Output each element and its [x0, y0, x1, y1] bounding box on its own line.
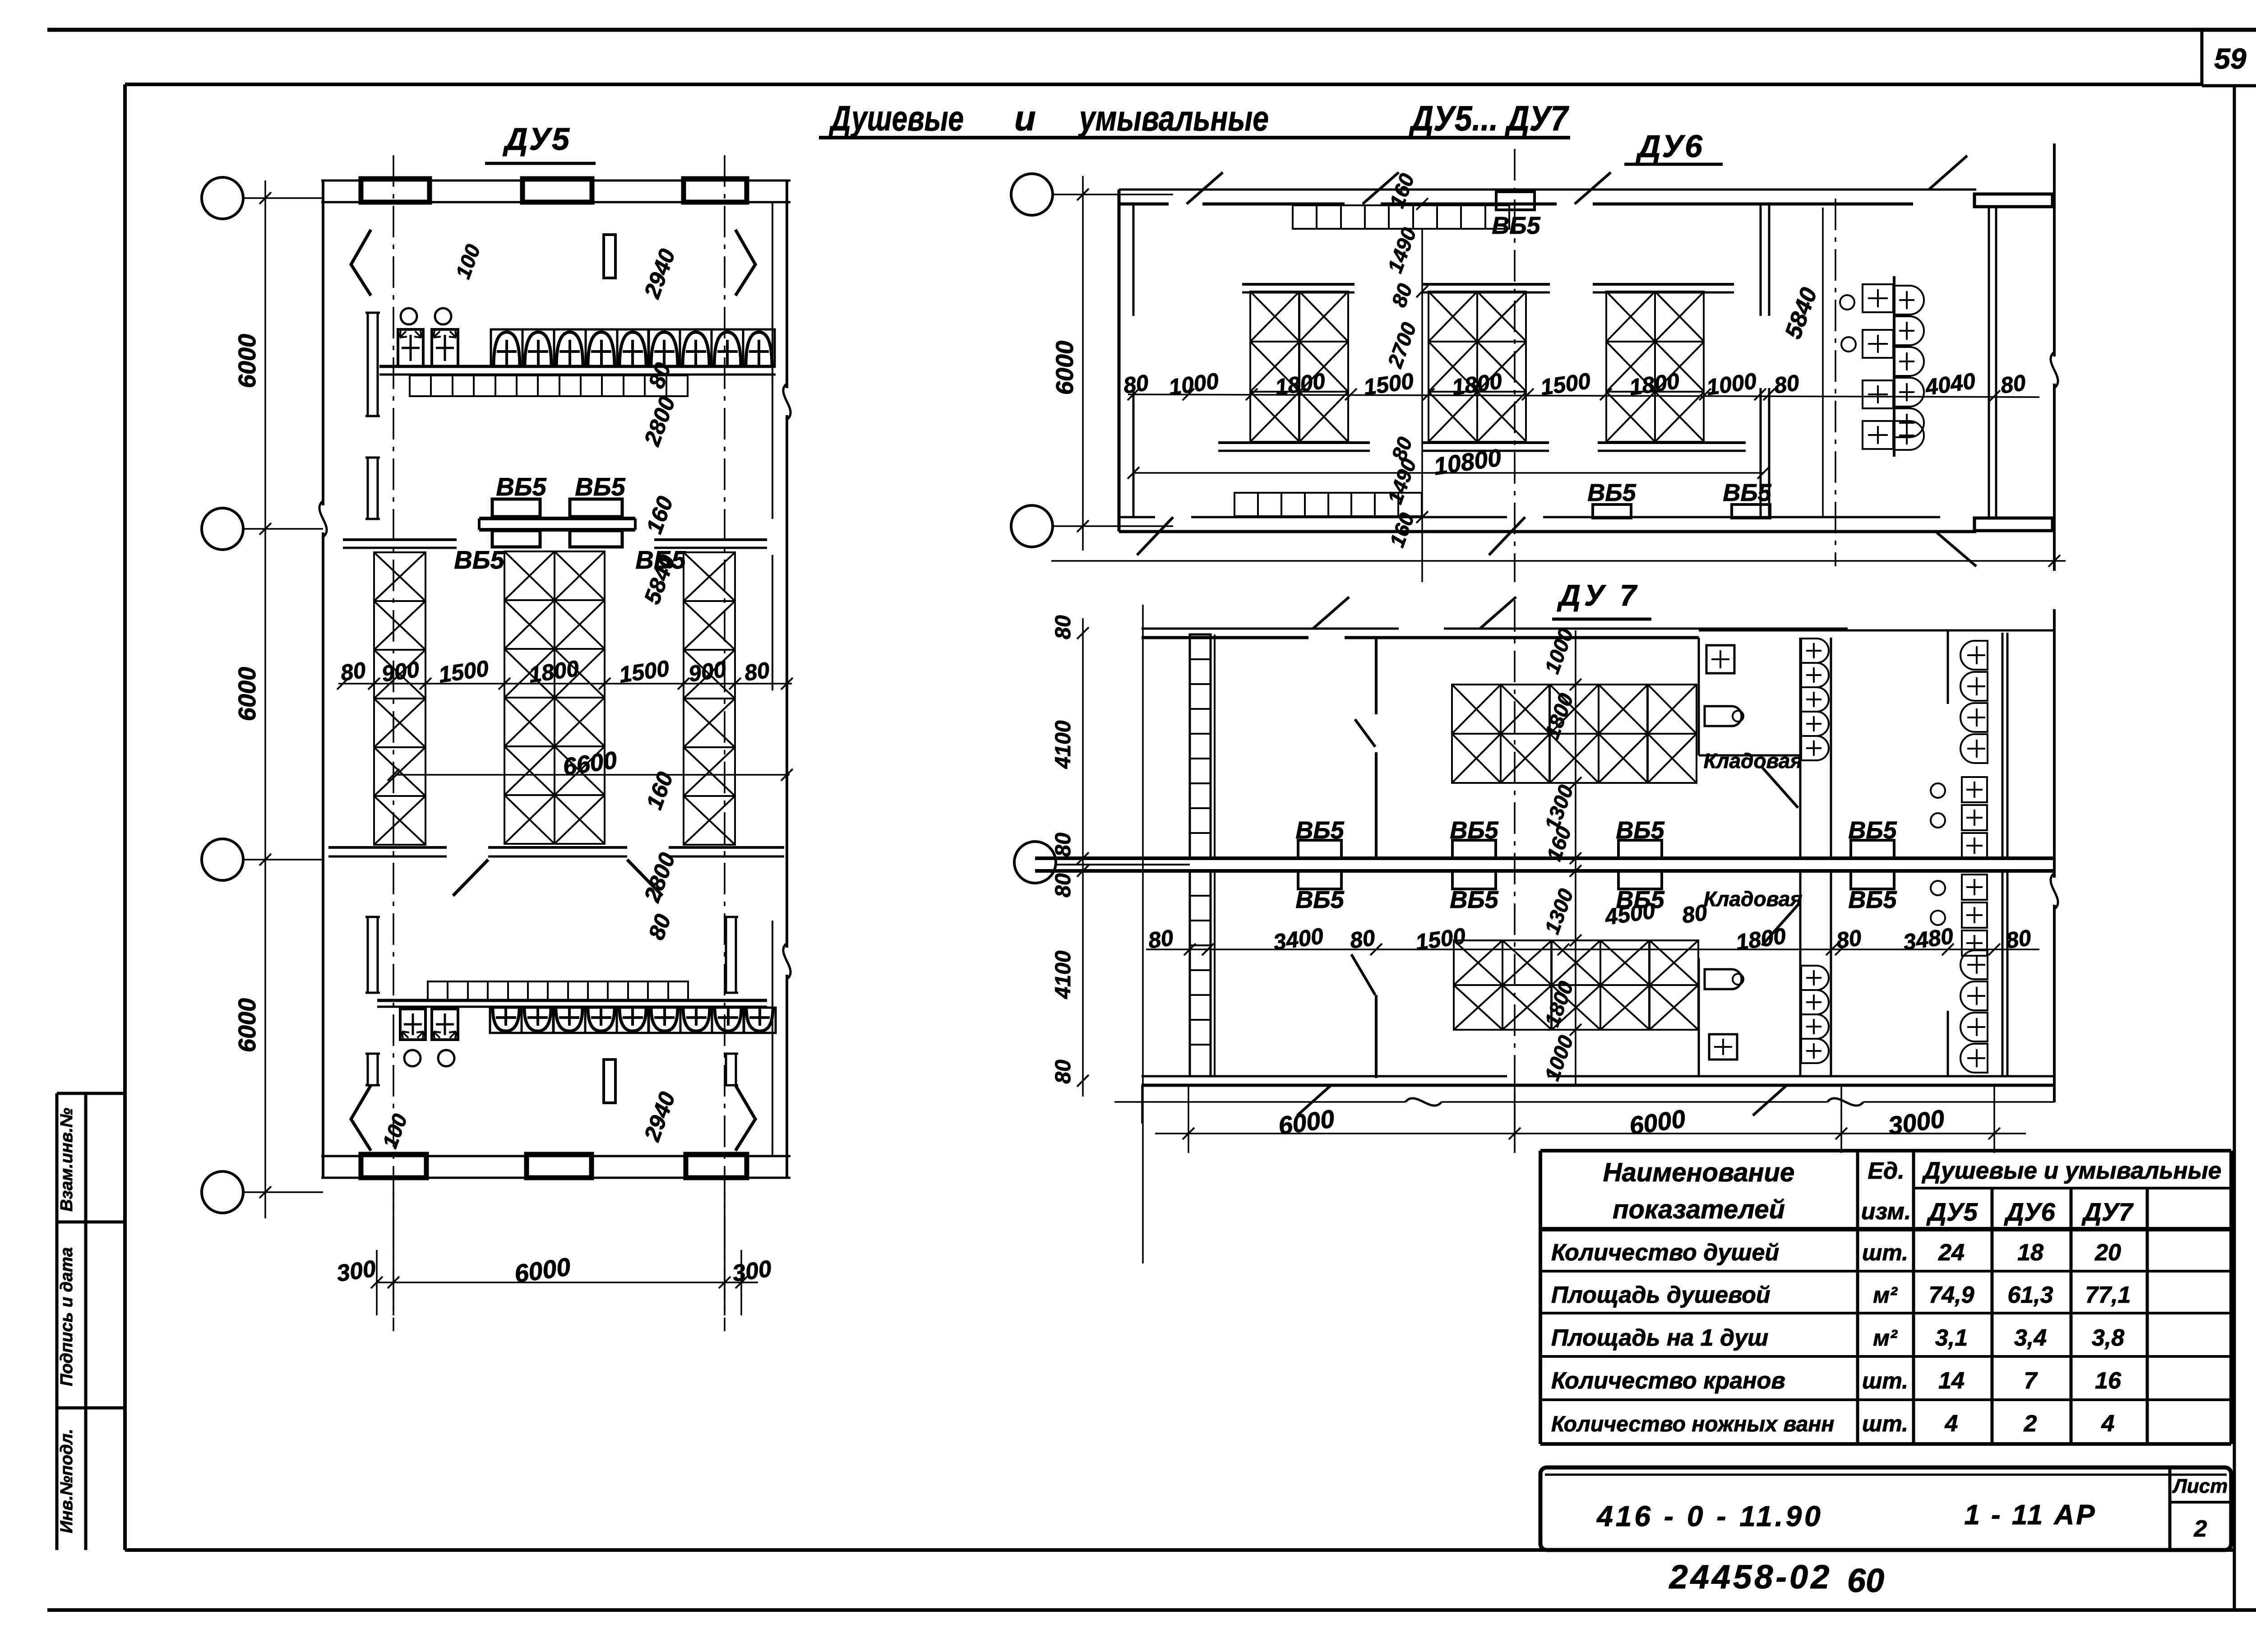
- svg-text:Количество ножных ванн: Количество ножных ванн: [1551, 1412, 1834, 1436]
- svg-text:ВБ5: ВБ5: [496, 472, 546, 501]
- svg-text:шт.: шт.: [1862, 1368, 1908, 1393]
- svg-text:80: 80: [1348, 925, 1377, 953]
- svg-text:416 - 0 - 11.90: 416 - 0 - 11.90: [1596, 1500, 1823, 1532]
- svg-text:Кладовая: Кладовая: [1704, 749, 1803, 773]
- svg-text:6000: 6000: [1276, 1104, 1336, 1140]
- svg-text:ДУ5... ДУ7: ДУ5... ДУ7: [1409, 98, 1570, 138]
- svg-text:показателей: показателей: [1613, 1195, 1785, 1224]
- svg-text:80: 80: [1051, 1060, 1075, 1084]
- svg-text:ВБ5: ВБ5: [575, 472, 625, 501]
- svg-text:4: 4: [1945, 1411, 1958, 1437]
- svg-text:80: 80: [1051, 873, 1075, 898]
- svg-text:80: 80: [1680, 900, 1709, 928]
- svg-text:80: 80: [339, 657, 367, 686]
- svg-text:3,4: 3,4: [2014, 1325, 2047, 1351]
- svg-text:6000: 6000: [234, 998, 261, 1052]
- svg-text:80: 80: [1772, 370, 1801, 398]
- svg-text:80: 80: [1387, 280, 1417, 310]
- svg-text:74,9: 74,9: [1928, 1282, 1974, 1308]
- svg-text:умывальные: умывальные: [1078, 98, 1269, 138]
- svg-text:1500: 1500: [1414, 923, 1467, 955]
- svg-text:4100: 4100: [1051, 950, 1075, 999]
- svg-text:2800: 2800: [639, 393, 680, 449]
- svg-text:Ед.: Ед.: [1868, 1158, 1904, 1184]
- svg-text:80: 80: [1835, 925, 1863, 953]
- svg-text:80: 80: [1051, 615, 1075, 639]
- svg-text:ДУ5: ДУ5: [503, 121, 571, 157]
- svg-text:6000: 6000: [234, 334, 261, 388]
- svg-text:2940: 2940: [639, 245, 680, 302]
- svg-text:ДУ7: ДУ7: [2081, 1198, 2134, 1226]
- svg-text:Подпись и дата: Подпись и дата: [57, 1247, 76, 1386]
- svg-text:Кладовая: Кладовая: [1704, 887, 1803, 911]
- svg-text:Количество кранов: Количество кранов: [1551, 1368, 1785, 1394]
- svg-text:Лист: Лист: [2172, 1475, 2228, 1497]
- svg-text:100: 100: [378, 1111, 411, 1151]
- svg-text:Площадь на 1 душ: Площадь на 1 душ: [1551, 1325, 1768, 1351]
- svg-text:ВБ5: ВБ5: [1723, 479, 1771, 506]
- svg-text:6000: 6000: [234, 667, 261, 721]
- svg-text:Душевые: Душевые: [828, 98, 964, 138]
- svg-text:3000: 3000: [1886, 1104, 1946, 1140]
- svg-text:80: 80: [1051, 833, 1075, 857]
- svg-text:16: 16: [2095, 1368, 2122, 1394]
- svg-text:61,3: 61,3: [2007, 1282, 2053, 1308]
- svg-text:4100: 4100: [1051, 720, 1075, 769]
- svg-text:1800: 1800: [527, 656, 581, 688]
- svg-text:80: 80: [1146, 925, 1175, 953]
- svg-text:1500: 1500: [437, 656, 490, 688]
- svg-text:1500: 1500: [618, 656, 671, 688]
- svg-text:80: 80: [2004, 925, 2033, 953]
- svg-text:Количество душей: Количество душей: [1551, 1240, 1779, 1266]
- svg-text:6600: 6600: [561, 746, 619, 781]
- svg-text:5840: 5840: [1780, 284, 1822, 342]
- svg-text:ДУ6: ДУ6: [1636, 129, 1704, 164]
- svg-text:ДУ 7: ДУ 7: [1557, 578, 1640, 612]
- svg-text:ВБ5: ВБ5: [1450, 886, 1498, 913]
- svg-text:1490: 1490: [1383, 224, 1421, 276]
- svg-text:Взам.инв.№: Взам.инв.№: [57, 1108, 76, 1212]
- svg-text:300: 300: [731, 1255, 773, 1287]
- svg-text:7: 7: [2024, 1368, 2038, 1394]
- svg-text:1800: 1800: [1734, 923, 1788, 955]
- svg-text:300: 300: [335, 1255, 378, 1287]
- svg-text:Площадь душевой: Площадь душевой: [1551, 1282, 1771, 1308]
- svg-text:2940: 2940: [639, 1088, 680, 1145]
- svg-text:60: 60: [1847, 1562, 1884, 1599]
- svg-text:ВБ5: ВБ5: [1295, 886, 1344, 913]
- svg-text:80: 80: [643, 911, 676, 943]
- svg-text:80: 80: [743, 657, 771, 686]
- svg-text:59: 59: [2214, 42, 2247, 75]
- svg-text:1300: 1300: [1540, 885, 1578, 937]
- svg-text:ВБ5: ВБ5: [635, 546, 686, 574]
- svg-text:80: 80: [1999, 370, 2027, 398]
- svg-text:3400: 3400: [1272, 923, 1325, 955]
- svg-text:1 - 11 АР: 1 - 11 АР: [1964, 1499, 2096, 1531]
- svg-text:24458-02: 24458-02: [1669, 1558, 1832, 1596]
- svg-text:ВБ5: ВБ5: [454, 546, 504, 574]
- svg-text:1000: 1000: [1540, 625, 1578, 676]
- svg-text:ВБ5: ВБ5: [1492, 212, 1540, 239]
- svg-text:Душевые и умывальные: Душевые и умывальные: [1922, 1157, 2222, 1184]
- svg-text:4: 4: [2101, 1411, 2115, 1437]
- svg-text:Наименование: Наименование: [1603, 1158, 1794, 1187]
- svg-text:24: 24: [1938, 1240, 1965, 1266]
- svg-text:2: 2: [2024, 1411, 2037, 1437]
- svg-text:изм.: изм.: [1861, 1199, 1911, 1225]
- svg-text:ВБ5: ВБ5: [1587, 479, 1636, 506]
- svg-text:6000: 6000: [1627, 1104, 1687, 1140]
- svg-text:14: 14: [1938, 1368, 1965, 1394]
- svg-text:и: и: [1014, 98, 1036, 138]
- svg-text:2700: 2700: [1383, 319, 1421, 371]
- svg-text:3,8: 3,8: [2092, 1325, 2124, 1351]
- svg-text:шт.: шт.: [1862, 1240, 1908, 1265]
- svg-text:ДУ5: ДУ5: [1926, 1198, 1978, 1226]
- svg-text:10800: 10800: [1432, 444, 1503, 480]
- svg-text:900: 900: [687, 657, 728, 687]
- svg-text:4500: 4500: [1603, 898, 1657, 930]
- svg-text:шт.: шт.: [1862, 1411, 1908, 1436]
- svg-text:160: 160: [641, 493, 678, 537]
- svg-text:100: 100: [451, 241, 485, 282]
- svg-text:900: 900: [380, 657, 421, 687]
- svg-text:1490: 1490: [1383, 455, 1421, 507]
- svg-text:77,1: 77,1: [2085, 1282, 2131, 1308]
- svg-text:м²: м²: [1873, 1282, 1898, 1308]
- svg-text:ВБ5: ВБ5: [1848, 886, 1897, 913]
- svg-text:80: 80: [1122, 370, 1150, 398]
- svg-text:1000: 1000: [1705, 368, 1758, 400]
- svg-text:6000: 6000: [1051, 341, 1078, 395]
- svg-text:4040: 4040: [1923, 368, 1977, 400]
- svg-text:3,1: 3,1: [1935, 1325, 1968, 1351]
- svg-text:20: 20: [2094, 1240, 2121, 1266]
- svg-text:Инв.№подл.: Инв.№подл.: [57, 1429, 76, 1533]
- svg-text:2: 2: [2194, 1516, 2207, 1542]
- svg-text:18: 18: [2017, 1240, 2043, 1266]
- svg-text:ДУ6: ДУ6: [2004, 1198, 2055, 1226]
- svg-text:м²: м²: [1873, 1325, 1898, 1351]
